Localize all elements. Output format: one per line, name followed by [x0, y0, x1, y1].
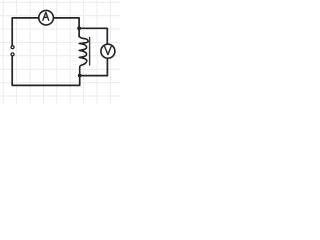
terminal: lower open contact	[11, 53, 14, 56]
inductor L cusp wedges	[79, 42, 84, 58]
wire: lower junction down, bottom wire, left lower segment	[12, 56, 80, 85]
junction: top node	[77, 26, 81, 30]
inductor core line	[89, 38, 91, 65]
terminal: upper open contact	[11, 46, 14, 49]
wire: left upper segment with top-left corner	[12, 18, 38, 45]
inductor L	[79, 35, 88, 74]
wire: branch junction to voltmeter top	[79, 28, 107, 44]
junction: bottom node	[78, 74, 82, 78]
voltmeter V	[101, 44, 115, 58]
wire: ammeter right side to top-right corner, down to junction and coil top	[54, 18, 79, 37]
ammeter A	[39, 10, 54, 25]
wire: voltmeter bottom to lower junction	[81, 59, 108, 76]
